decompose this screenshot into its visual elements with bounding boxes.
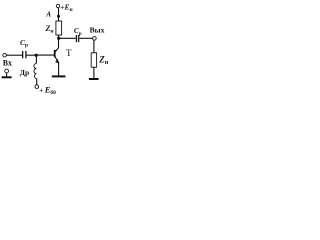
svg-text:Т: Т [66, 48, 72, 58]
svg-text:Др: Др [20, 68, 29, 77]
svg-text:Вх: Вх [3, 58, 12, 67]
svg-text:A: A [45, 10, 51, 18]
svg-text:Вых: Вых [90, 26, 105, 35]
